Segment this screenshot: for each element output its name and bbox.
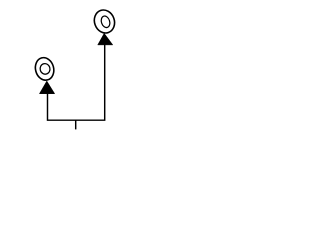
state node left inner (39, 63, 51, 76)
arrowhead left (39, 81, 54, 94)
wire stub (75, 120, 77, 129)
wire left branch, bottom rail, right branch (48, 45, 105, 121)
state node right outer (91, 7, 118, 36)
state node left outer (33, 56, 56, 83)
arrowhead right (98, 33, 113, 45)
state node right inner (100, 15, 111, 29)
